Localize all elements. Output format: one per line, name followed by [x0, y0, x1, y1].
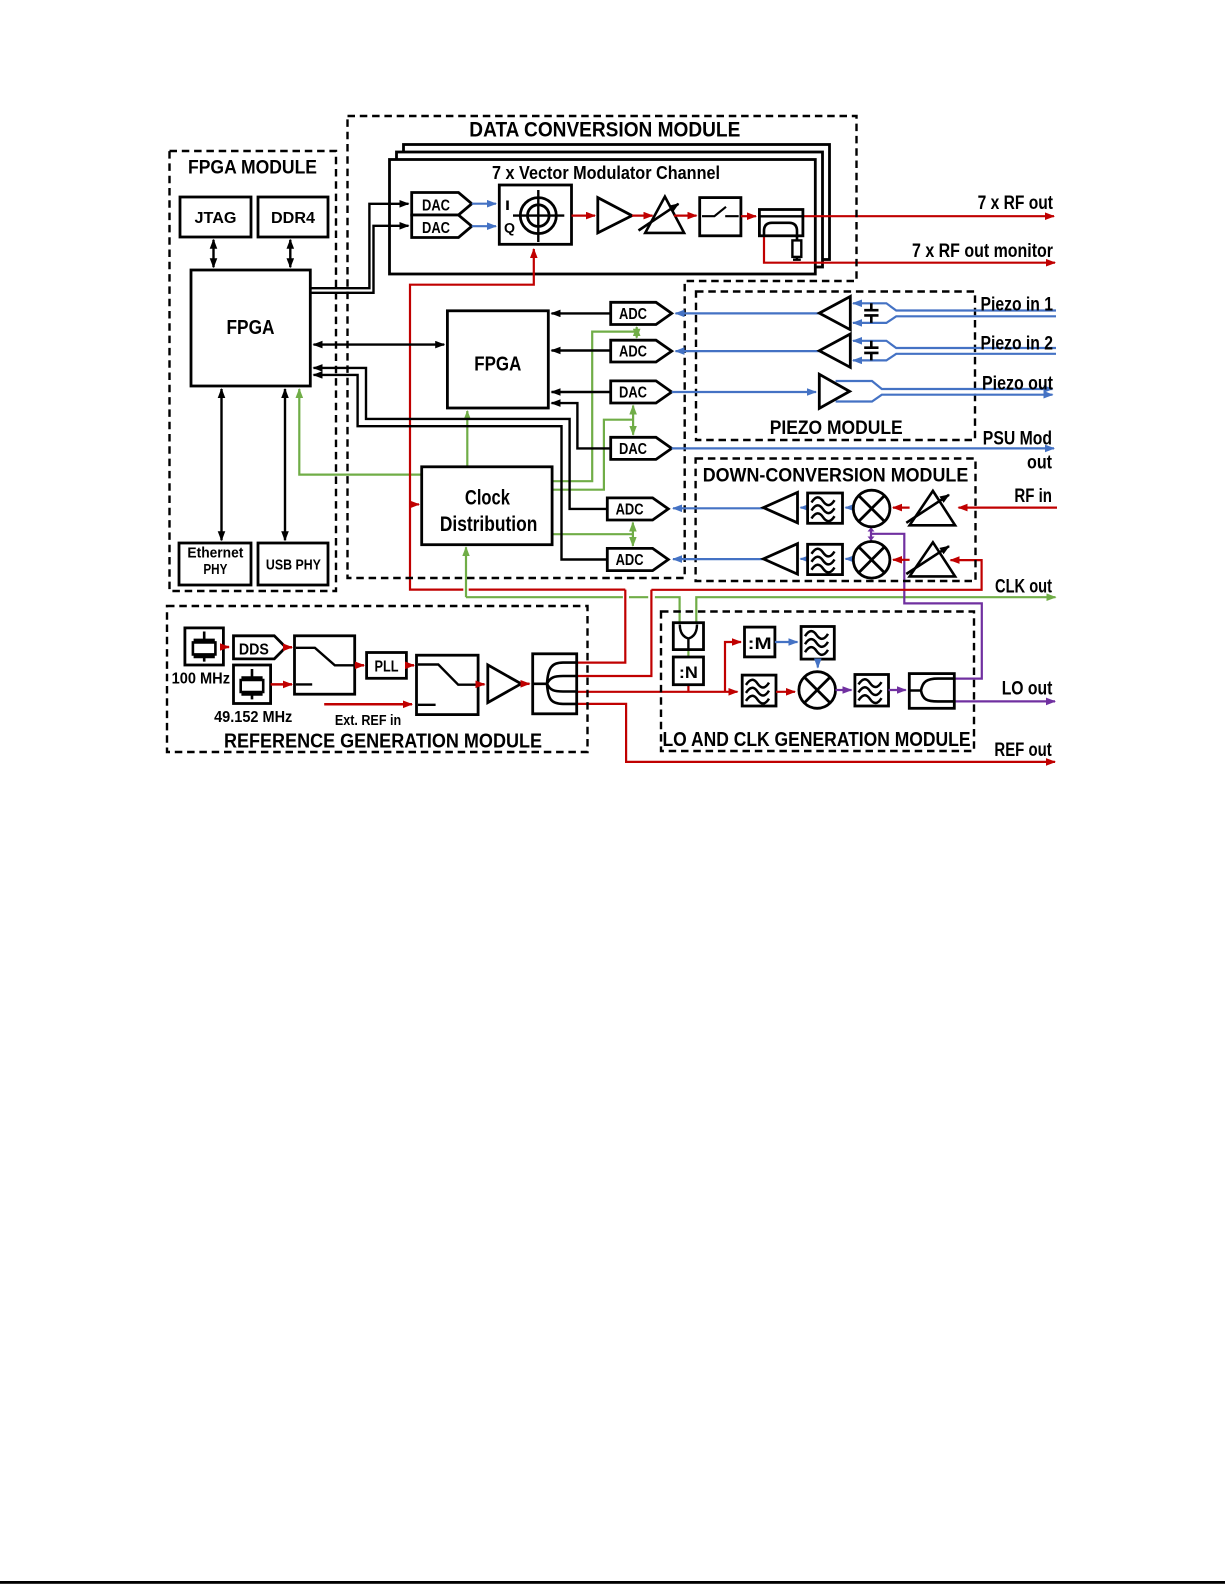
ADC1 pentagon [611, 302, 672, 324]
dc filter FL1 [808, 493, 843, 523]
wire red net1 horizontal segment b [410, 249, 534, 590]
crystal oscillator X2 (49.152 MHz) [234, 665, 271, 704]
dc filter FL2 [808, 544, 843, 574]
DOWN-CONVERSION MODULE dashed border [696, 459, 976, 582]
channel stack back box [404, 145, 830, 260]
wire crystal2 to switch1 (red) [271, 683, 292, 686]
svg-text:Piezo out: Piezo out [982, 373, 1054, 394]
REFERENCE GENERATION MODULE dashed border [167, 606, 588, 752]
wire DAC1 to FPGA2 [552, 391, 611, 393]
svg-text:USB PHY: USB PHY [266, 557, 321, 574]
FPGA U1 box [191, 270, 310, 386]
wire green combiner to :N [687, 650, 689, 657]
reference switch S3 [417, 655, 479, 714]
DAC1 pentagon [611, 381, 672, 403]
svg-text:Piezo in 1: Piezo in 1 [981, 294, 1054, 315]
wire FPGA1 to channel DAC I [310, 204, 408, 288]
svg-text:ADC: ADC [616, 502, 644, 519]
lo filter FL4 [742, 675, 776, 706]
wire mixer1 to filter1 (blue) [846, 507, 854, 509]
wire switch2 to amp (red) [478, 683, 484, 686]
piezo amp A3 [819, 334, 850, 367]
wire clock-dist to ADC3/ADC4 pair (green) [552, 533, 633, 535]
wire switch to coupler (red) [741, 215, 756, 217]
wire modulator to amp (red) [572, 215, 596, 217]
FPGA MODULE dashed border [170, 151, 337, 591]
wire DAC I to modulator (blue) [472, 203, 496, 205]
svg-text:DAC: DAC [422, 198, 450, 215]
wire DAC Q to modulator (blue) [472, 225, 496, 227]
LO AND CLK GENERATION MODULE dashed border [661, 612, 974, 752]
wire FPGA-EthernetPHY [220, 389, 222, 540]
svg-text:PIEZO MODULE: PIEZO MODULE [770, 418, 903, 439]
svg-text::N: :N [679, 663, 698, 682]
wire red splitter out4 to REF out [577, 704, 1055, 762]
svg-text:DDR4: DDR4 [271, 210, 315, 227]
svg-text:FPGA: FPGA [227, 317, 275, 339]
wire filterA to mixer3 (blue) [817, 659, 819, 667]
wire FPGA1-FPGA2 link [314, 343, 445, 345]
wire green clk horizontal segment b [629, 596, 648, 598]
channel stack middle box [397, 152, 823, 267]
wire dc amp1 to ADC3 (blue) [673, 507, 763, 509]
wire DAC2 to PSU Mod out (blue) [672, 447, 1054, 449]
DATA CONVERSION MODULE dashed border [348, 116, 857, 578]
wire red :N output stub [687, 685, 689, 692]
svg-text:RF in: RF in [1014, 486, 1052, 507]
svg-text:JTAG: JTAG [195, 210, 237, 227]
wire red 7xRF out monitor [764, 236, 1055, 263]
wire mixer3 to filterC (purple) [836, 689, 852, 691]
svg-text:Clock: Clock [465, 486, 510, 509]
ADC4 pentagon [607, 548, 668, 570]
wire red stub into clock-dist [410, 503, 419, 505]
wire red riser to :M [725, 642, 741, 692]
wire attenuator to switch (red) [674, 215, 697, 217]
dc mixer MX2 [853, 542, 890, 579]
piezo input connector J2 (blue) [853, 341, 1056, 361]
svg-text:DAC: DAC [619, 385, 647, 402]
piezo input connector J1 (blue) [853, 303, 1056, 323]
wire clock-dist to DAC1/DAC2 pair (green) [552, 420, 633, 490]
svg-text:out: out [1027, 452, 1053, 473]
wire ADC2 to FPGA2 [552, 349, 611, 351]
lo filter FL5 [855, 675, 889, 707]
PIEZO MODULE dashed border [696, 292, 975, 441]
dc attenuator AT2 [906, 491, 955, 525]
ADC3 pentagon [607, 498, 668, 520]
wire ADC3 to FPGA1 [314, 368, 608, 509]
wire FPGA1 to channel DAC Q [310, 226, 408, 293]
wire clock arrow DAC1-DAC2 (green) [632, 406, 634, 435]
svg-text:Distribution: Distribution [440, 513, 538, 536]
svg-text:Ext. REF in: Ext. REF in [335, 712, 401, 729]
wire red splitter out1 riser [577, 590, 626, 663]
svg-text:I: I [505, 197, 510, 213]
piezo output connector J3 (blue) [836, 381, 1053, 402]
reference amp A7 [488, 665, 521, 703]
wire red RF in [959, 507, 1058, 509]
wire dc filter2 to amp2 (blue) [801, 558, 808, 560]
lo splitter SP2 [909, 674, 954, 709]
svg-text:7 x RF out: 7 x RF out [978, 193, 1054, 214]
wire clock arrow ADC1-ADC2 (green) [636, 327, 638, 338]
svg-text:7 x Vector Modulator Channel: 7 x Vector Modulator Channel [492, 163, 720, 183]
DAC2 pentagon [611, 437, 672, 459]
wire JTAG-FPGA [212, 240, 214, 267]
wire ADC4 to FPGA1 [314, 375, 608, 560]
svg-text:PSU Mod: PSU Mod [983, 429, 1052, 450]
wire DDR4-FPGA [289, 240, 291, 267]
wire crystal1 to DDS (red) [223, 646, 229, 649]
divider :N box [673, 657, 703, 685]
clk combiner Y1 [673, 623, 703, 650]
wire clock-dist to FPGA1 (green) [299, 389, 421, 475]
wire filterB to mixer3 (red) [776, 691, 795, 693]
svg-text:PLL: PLL [375, 658, 399, 675]
lo mixer MX3 [799, 672, 836, 709]
svg-text:Piezo in 2: Piezo in 2 [981, 333, 1054, 354]
channel stack front box [390, 160, 816, 275]
USB PHY box [258, 543, 328, 585]
wire red attenuator2 to mixer2 [893, 559, 910, 561]
wire dc amp2 to ADC4 (blue) [673, 558, 763, 560]
Ethernet PHY box [179, 543, 251, 585]
svg-text:CLK out: CLK out [995, 576, 1053, 597]
svg-text:DOWN-CONVERSION MODULE: DOWN-CONVERSION MODULE [703, 466, 969, 487]
reference switch S2 [295, 636, 355, 694]
amplifier A1 (channel) [598, 198, 632, 233]
svg-text:DDS: DDS [239, 641, 269, 658]
dc attenuator AT3 [906, 542, 955, 576]
wire piezo amp2 to ADC2 (blue) [676, 350, 820, 352]
divider :M box [745, 627, 775, 657]
wire DAC2 to FPGA2 [552, 403, 611, 448]
wire red splitter out2 riser [577, 590, 652, 676]
Clock Distribution box [422, 467, 552, 545]
wire LO feed mixers (purple) [870, 528, 872, 541]
crystal oscillator X1 (100 MHz) [185, 628, 224, 665]
wire switch1 to PLL (red) [355, 664, 364, 667]
wire red net1 horizontal segment a [469, 588, 626, 590]
wire piezo amp1 to ADC1 (blue) [676, 312, 820, 314]
coupler ground [793, 257, 801, 260]
piezo amp A2 [819, 297, 850, 330]
svg-text:Ethernet: Ethernet [187, 545, 243, 562]
DAC I pentagon (channel) [412, 193, 472, 216]
svg-text:REF out: REF out [994, 740, 1052, 761]
reference splitter SP1 [533, 654, 577, 714]
svg-text:100 MHz: 100 MHz [172, 671, 230, 688]
svg-text:FPGA: FPGA [474, 353, 521, 375]
RF switch S1 (channel) [700, 198, 741, 236]
svg-text:Q: Q [504, 220, 515, 236]
svg-text:49.152 MHz: 49.152 MHz [214, 709, 292, 726]
directional coupler DC1 [759, 210, 803, 241]
wire green combiner input 2 and CLK out [696, 597, 1055, 623]
DDS pentagon [234, 636, 286, 659]
wire red 7xRF out [803, 215, 1054, 217]
svg-text:REFERENCE GENERATION MODULE: REFERENCE GENERATION MODULE [224, 730, 542, 752]
JTAG box [180, 197, 251, 237]
wire green clk horizontal segment a [466, 596, 623, 598]
wire PLL to switch2 (red) [406, 664, 414, 667]
svg-text:LO AND CLK GENERATION MODULE: LO AND CLK GENERATION MODULE [663, 729, 971, 751]
wire dc filter1 to amp1 (blue) [801, 507, 808, 509]
wire amp to attenuator (red) [632, 215, 653, 217]
svg-text:PHY: PHY [203, 561, 227, 578]
wire ADC1 to FPGA2 [552, 312, 611, 314]
PLL box [367, 653, 407, 679]
coupler termination resistor R1 [792, 240, 801, 257]
wire clock-dist to ADC1/ADC2 pair (green) [552, 332, 637, 482]
capacitor C1 [864, 303, 878, 323]
wire red attenuator1 to mixer1 [893, 507, 910, 509]
svg-text:ADC: ADC [616, 552, 644, 569]
svg-text:ADC: ADC [619, 344, 647, 361]
svg-text::M: :M [748, 634, 772, 653]
lo filter FL3 [801, 627, 834, 660]
svg-text:DAC: DAC [422, 220, 450, 237]
DAC Q pentagon (channel) [412, 215, 472, 238]
wire LO distribution riser (purple) [871, 534, 982, 679]
ADC2 pentagon [611, 340, 672, 362]
wire green clk horizontal to clock-dist bottom [465, 547, 467, 597]
wire DAC1 to piezo amp3 (blue) [672, 391, 816, 393]
variable attenuator AT1 (channel) [639, 197, 685, 233]
DDR4 box [258, 197, 328, 237]
wire green clk horizontal segment c into combiner input 1 [655, 597, 680, 623]
wire FPGA-USBPHY [284, 389, 286, 540]
vector modulator U2 [499, 185, 571, 244]
wire clock-dist to FPGA2 (green) [466, 411, 468, 467]
wire :M to filterA (blue) [775, 641, 798, 643]
wire DDS to switch1 (red) [286, 646, 292, 649]
dc amp A6 [763, 544, 797, 574]
svg-text:7 x RF out monitor: 7 x RF out monitor [912, 241, 1054, 262]
bottom page rule [0, 1581, 1225, 1584]
wire LO feed arrowheads (purple) [868, 527, 875, 540]
svg-text:FPGA MODULE: FPGA MODULE [188, 157, 317, 178]
svg-text:ADC: ADC [619, 306, 647, 323]
wire red splitter out3 to LO module [577, 691, 738, 693]
svg-text:LO out: LO out [1002, 679, 1053, 700]
svg-text:DATA CONVERSION MODULE: DATA CONVERSION MODULE [469, 119, 740, 142]
wire clock arrow ADC3-ADC4 (green) [632, 523, 634, 546]
wire amp to splitter (red) [521, 683, 529, 686]
FPGA U3 box [447, 311, 548, 408]
wire red net2 to down-conversion attenuator 2 [651, 560, 981, 590]
wire filterC to splitter2 (purple) [889, 689, 906, 691]
capacitor C2 [864, 341, 878, 361]
dc mixer MX1 [853, 490, 890, 527]
dc amp A5 [763, 492, 797, 522]
piezo amp A4 (output) [819, 374, 849, 408]
wire Ext REF in (red) [324, 703, 412, 706]
wire LO out (purple) [954, 700, 1055, 702]
svg-text:DAC: DAC [619, 441, 647, 458]
wire mixer2 to filter2 (blue) [846, 558, 854, 560]
